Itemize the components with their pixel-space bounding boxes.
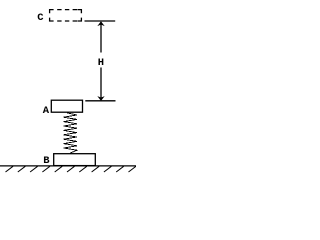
svg-text:H: H [98,57,104,69]
svg-text:C: C [37,12,44,24]
dashed box C [50,10,82,21]
svg-text:A: A [43,105,50,117]
lower reference line [85,100,115,102]
top reference line [85,20,116,22]
spring [64,113,78,153]
box B [54,154,96,166]
ground line [0,165,136,167]
dimension line H (vertical, two segments) [100,22,102,53]
box A [51,100,82,112]
arrowhead down [98,97,103,100]
ground hatches [6,166,137,172]
arrowhead up [98,22,103,25]
